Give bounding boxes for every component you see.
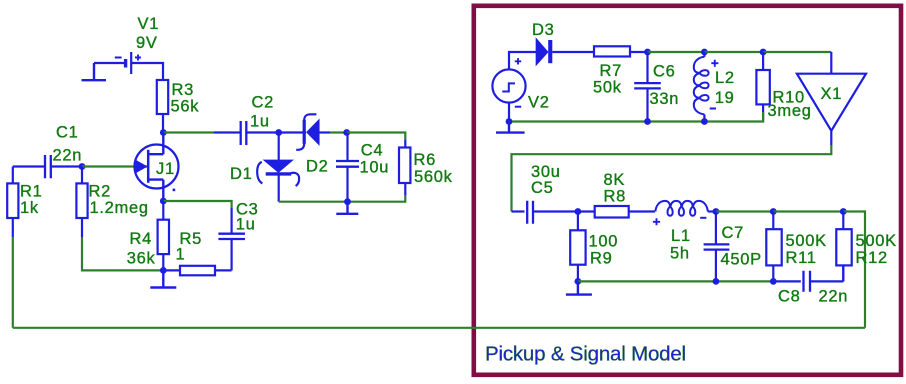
node C7 bottom bbox=[713, 278, 720, 285]
capacitor C7 bbox=[704, 212, 730, 282]
wire drain node to C2 bbox=[163, 131, 214, 133]
wire X1 output bbox=[830, 131, 832, 145]
zener diode D2 bbox=[279, 114, 330, 150]
label L2 bbox=[715, 69, 735, 87]
node V2 bottom bbox=[506, 118, 513, 125]
label R3 bbox=[172, 81, 195, 99]
node C4 top bbox=[343, 129, 350, 136]
capacitor C2 bbox=[214, 121, 279, 145]
resistor R4 bbox=[158, 201, 169, 270]
node L1-C7 bbox=[713, 208, 720, 215]
ground GND3 (R4) bbox=[150, 270, 176, 287]
svg-text:560k: 560k bbox=[414, 168, 453, 186]
value 500K (R11) bbox=[786, 232, 827, 250]
node C2-D1-D2 bbox=[275, 129, 282, 136]
pin minus L2 bbox=[710, 108, 716, 110]
node R9 bottom bbox=[575, 278, 582, 285]
label C1 bbox=[56, 124, 79, 142]
battery V1 bbox=[115, 52, 141, 74]
value 10u bbox=[360, 159, 390, 177]
wire bottom rail D1-C4-R6 bbox=[279, 195, 406, 202]
svg-text:19: 19 bbox=[715, 89, 735, 107]
svg-text:R3: R3 bbox=[172, 81, 195, 99]
svg-text:R4: R4 bbox=[130, 230, 153, 248]
wire X1 output to C5 column bbox=[512, 145, 832, 212]
value 22n (C8) bbox=[819, 288, 849, 306]
svg-text:R11: R11 bbox=[786, 249, 817, 267]
svg-text:D3: D3 bbox=[532, 21, 555, 39]
value 9V bbox=[136, 34, 158, 52]
svg-text:V1: V1 bbox=[138, 15, 160, 33]
wire ground to battery bbox=[94, 62, 124, 64]
wire rail to output corner bbox=[843, 212, 865, 328]
value 100 bbox=[589, 233, 619, 251]
node R7-C6 bbox=[644, 49, 651, 56]
label R7 bbox=[600, 62, 623, 80]
label R6 bbox=[414, 151, 437, 169]
svg-text:30u: 30u bbox=[531, 163, 561, 181]
svg-text:1u: 1u bbox=[236, 215, 256, 233]
label X1 bbox=[821, 85, 843, 103]
svg-text:50k: 50k bbox=[593, 79, 622, 97]
svg-text:R7: R7 bbox=[600, 62, 623, 80]
value 30u bbox=[531, 163, 561, 181]
wire battery to R3 bbox=[131, 63, 163, 80]
value 22n (C1) bbox=[53, 146, 83, 164]
ground GND5 (R9) bbox=[566, 281, 592, 294]
svg-text:9V: 9V bbox=[136, 34, 158, 52]
svg-text:R8: R8 bbox=[604, 188, 627, 206]
wire lower bottom rail bbox=[578, 280, 773, 282]
label C8 bbox=[778, 288, 801, 306]
inductor L2 bbox=[694, 52, 709, 122]
resistor R11 bbox=[766, 212, 781, 282]
svg-text:450P: 450P bbox=[721, 251, 762, 269]
value 1.2meg bbox=[90, 199, 149, 217]
label R11 bbox=[786, 249, 817, 267]
label J1 bbox=[156, 160, 175, 178]
svg-text:J1: J1 bbox=[156, 160, 175, 178]
svg-text:3meg: 3meg bbox=[768, 102, 812, 120]
svg-text:C7: C7 bbox=[722, 224, 745, 242]
ground GND4 (V2) bbox=[496, 122, 525, 133]
value 56k bbox=[171, 98, 200, 116]
svg-text:5h: 5h bbox=[670, 244, 690, 262]
svg-text:8K: 8K bbox=[604, 171, 626, 189]
wire gate node to J1 bbox=[82, 165, 134, 167]
capacitor C6 bbox=[634, 52, 661, 122]
node C6 bottom bbox=[644, 118, 651, 125]
wire rail to R12 bbox=[773, 210, 843, 212]
resistor R2 bbox=[76, 167, 87, 238]
resistor R8 bbox=[578, 206, 655, 218]
label C2 bbox=[252, 94, 275, 112]
node L2 top bbox=[701, 49, 708, 56]
label R1 bbox=[20, 182, 43, 200]
wire rail to R11 bbox=[716, 210, 773, 212]
label D1 bbox=[230, 165, 253, 183]
label V1 bbox=[138, 15, 160, 33]
value 1u (C2) bbox=[250, 113, 270, 131]
value 1k bbox=[20, 199, 39, 217]
svg-text:1k: 1k bbox=[20, 199, 39, 217]
svg-text:D2: D2 bbox=[306, 157, 329, 175]
wire R2 bottom to source-R4 node bbox=[82, 237, 163, 270]
zener diode D1 bbox=[257, 133, 299, 202]
value 500K (R12) bbox=[856, 232, 897, 250]
wire top rail to R10 bbox=[704, 51, 763, 53]
node R10 top bbox=[760, 49, 767, 56]
svg-text:V2: V2 bbox=[528, 93, 550, 111]
svg-text:10u: 10u bbox=[360, 159, 390, 177]
svg-text:1.2meg: 1.2meg bbox=[90, 199, 149, 217]
wire source node to C3 bbox=[163, 201, 231, 208]
svg-text:R12: R12 bbox=[856, 249, 888, 267]
wire R1 bottom down bbox=[12, 237, 14, 328]
node R12 top bbox=[840, 208, 847, 215]
resistor R12 bbox=[836, 212, 851, 282]
capacitor C1 bbox=[13, 155, 82, 178]
node R4 bottom bbox=[160, 267, 167, 274]
resistor R7 bbox=[594, 46, 648, 56]
svg-text:Pickup & Signal Model: Pickup & Signal Model bbox=[485, 343, 686, 366]
wire V2 top to D3 bbox=[509, 52, 536, 70]
svg-text:33n: 33n bbox=[650, 90, 680, 108]
wire C4 node to R6 corner bbox=[347, 133, 406, 141]
svg-text:L2: L2 bbox=[715, 69, 735, 87]
value 8K bbox=[604, 171, 626, 189]
capacitor C4 bbox=[336, 133, 359, 202]
label R2 bbox=[89, 182, 112, 200]
svg-text:1u: 1u bbox=[250, 113, 270, 131]
wire X1 input lead bbox=[830, 52, 832, 74]
svg-text:C4: C4 bbox=[361, 142, 384, 160]
svg-text:22n: 22n bbox=[53, 146, 83, 164]
svg-text:C8: C8 bbox=[778, 288, 801, 306]
resistor R5 bbox=[163, 266, 231, 276]
resistor R3 bbox=[157, 80, 168, 133]
label R10 bbox=[773, 89, 805, 107]
wire bottom rail upper-right bbox=[509, 112, 763, 122]
label D2 bbox=[306, 157, 329, 175]
wire V2 bottom lead bbox=[508, 102, 510, 121]
wire D2 to C4 node bbox=[330, 131, 347, 133]
node R11 bottom bbox=[770, 278, 777, 285]
pin plus L1 bbox=[653, 218, 660, 225]
svg-text:C1: C1 bbox=[56, 124, 79, 142]
label C6 bbox=[653, 63, 676, 81]
value 1u (C3) bbox=[236, 215, 256, 233]
label R9 bbox=[590, 250, 613, 268]
node gate bbox=[79, 163, 86, 170]
label C3 bbox=[236, 201, 259, 219]
label V2 bbox=[528, 93, 550, 111]
label C7 bbox=[722, 224, 745, 242]
wire top rail to X1 bbox=[763, 51, 831, 53]
node L2 bottom bbox=[701, 118, 708, 125]
value 33n bbox=[650, 90, 680, 108]
source V2 bbox=[492, 58, 525, 107]
svg-text:22n: 22n bbox=[819, 288, 849, 306]
diode D3 bbox=[536, 39, 594, 64]
pin minus L1 bbox=[700, 217, 706, 219]
value 19 bbox=[715, 89, 735, 107]
svg-text:X1: X1 bbox=[821, 85, 843, 103]
svg-text:R9: R9 bbox=[590, 250, 613, 268]
svg-text:R6: R6 bbox=[414, 151, 437, 169]
resistor R6 bbox=[399, 140, 410, 195]
svg-text:100: 100 bbox=[589, 233, 619, 251]
svg-text:D1: D1 bbox=[230, 165, 253, 183]
capacitor C5 bbox=[512, 201, 578, 224]
label R12 bbox=[856, 249, 888, 267]
label D3 bbox=[532, 21, 555, 39]
svg-text:56k: 56k bbox=[171, 98, 200, 116]
transistor J1 bbox=[134, 133, 179, 202]
svg-text:R1: R1 bbox=[20, 182, 43, 200]
value 450P bbox=[721, 251, 762, 269]
svg-text:C6: C6 bbox=[653, 63, 676, 81]
op-amp X1 bbox=[797, 74, 866, 131]
J1 marker dot bbox=[173, 189, 176, 192]
svg-text:C2: C2 bbox=[252, 94, 275, 112]
value 36k bbox=[127, 250, 156, 268]
label R5 bbox=[180, 230, 203, 248]
svg-text:500K: 500K bbox=[786, 232, 827, 250]
svg-text:C5: C5 bbox=[531, 179, 554, 197]
value 5h bbox=[670, 244, 690, 262]
node C4 bottom bbox=[344, 198, 351, 205]
resistor R9 bbox=[570, 212, 585, 282]
node R11 top bbox=[770, 208, 777, 215]
value 1 (R5) bbox=[176, 245, 186, 263]
node C5-R8-R9 bbox=[575, 208, 582, 215]
capacitor C8 bbox=[773, 265, 843, 291]
node source bbox=[160, 198, 167, 205]
value 560k bbox=[414, 168, 453, 186]
svg-text:R2: R2 bbox=[89, 182, 112, 200]
svg-text:500K: 500K bbox=[856, 232, 897, 250]
ground GND2 (C4) bbox=[336, 202, 358, 214]
pin plus L2 bbox=[711, 60, 718, 67]
wire top rail to L2 bbox=[648, 51, 705, 53]
node drain bbox=[160, 129, 167, 136]
svg-text:L1: L1 bbox=[671, 227, 691, 245]
label C4 bbox=[361, 142, 384, 160]
resistor R10 bbox=[756, 52, 769, 122]
label C5 bbox=[531, 179, 554, 197]
ground GND1 (battery) bbox=[82, 63, 107, 80]
wire long bottom bbox=[13, 327, 865, 329]
label L1 bbox=[671, 227, 691, 245]
box Pickup & Signal Model bbox=[474, 6, 901, 375]
resistor R1 bbox=[7, 167, 18, 238]
value 50k bbox=[593, 79, 622, 97]
label R4 bbox=[130, 230, 153, 248]
title Pickup & Signal Model bbox=[485, 343, 686, 366]
label R8 bbox=[604, 188, 627, 206]
value 3meg bbox=[768, 102, 812, 120]
capacitor C3 bbox=[218, 208, 245, 270]
inductor L1 bbox=[655, 201, 716, 216]
svg-text:1: 1 bbox=[176, 245, 186, 263]
svg-text:36k: 36k bbox=[127, 250, 156, 268]
